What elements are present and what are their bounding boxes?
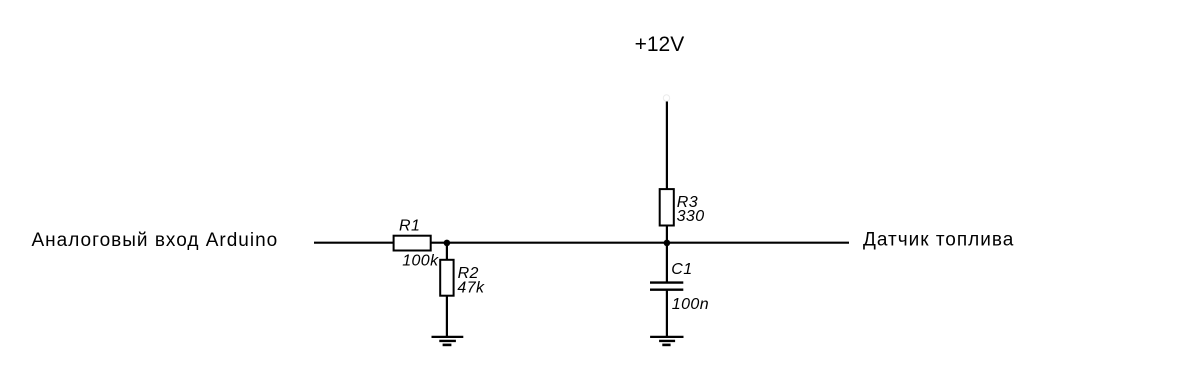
svg-text:C1: C1 [671, 261, 692, 278]
svg-text:100n: 100n [672, 296, 709, 313]
svg-text:Аналоговый вход Arduino: Аналоговый вход Arduino [32, 230, 279, 251]
svg-text:R1: R1 [399, 217, 420, 234]
svg-text:Датчик топлива: Датчик топлива [863, 230, 1014, 251]
svg-text:100k: 100k [402, 253, 439, 270]
svg-text:330: 330 [677, 208, 705, 225]
svg-text:47k: 47k [457, 280, 485, 297]
svg-text:+12V: +12V [635, 33, 685, 56]
